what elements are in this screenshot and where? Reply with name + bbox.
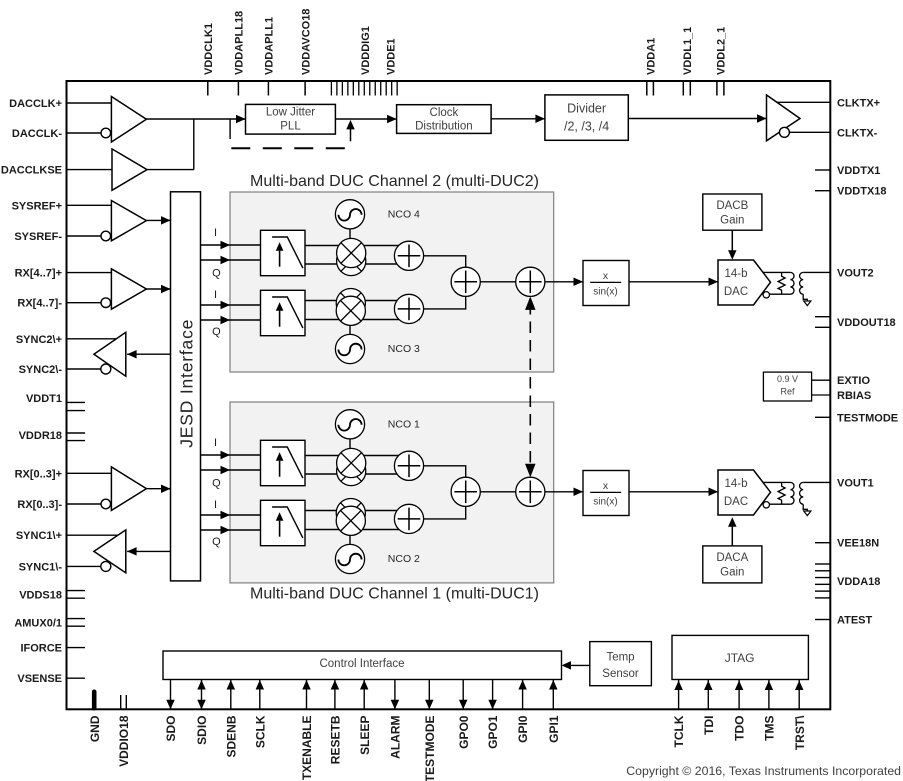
svg-text:Multi-band DUC Channel 1 (mult: Multi-band DUC Channel 1 (multi-DUC1) [250, 586, 539, 603]
svg-text:Copyright © 2016, Texas Instru: Copyright © 2016, Texas Instruments Inco… [626, 764, 901, 778]
svg-text:0.9 V: 0.9 V [777, 374, 798, 384]
svg-text:DACCLKSE: DACCLKSE [1, 165, 62, 177]
svg-text:VDDT1: VDDT1 [26, 393, 62, 405]
svg-text:SYNC2\+: SYNC2\+ [16, 334, 62, 346]
svg-text:TDI: TDI [702, 716, 716, 735]
svg-text:TCLK: TCLK [672, 715, 686, 747]
svg-text:GPO1: GPO1 [486, 715, 500, 749]
svg-text:VDDAPLL18: VDDAPLL18 [234, 11, 246, 75]
svg-text:PLL: PLL [280, 121, 301, 133]
svg-text:I: I [214, 289, 217, 301]
svg-text:TXENABLE: TXENABLE [300, 716, 314, 781]
svg-text:RESETB: RESETB [329, 715, 343, 764]
svg-text:Q: Q [212, 268, 221, 280]
svg-text:EXTIO: EXTIO [837, 375, 870, 387]
svg-text:GPI1: GPI1 [547, 715, 561, 743]
svg-text:SYSREF+: SYSREF+ [12, 200, 62, 212]
svg-text:VDDTX18: VDDTX18 [837, 186, 887, 198]
svg-text:Gain: Gain [720, 567, 744, 579]
svg-text:VDDCLK1: VDDCLK1 [203, 23, 215, 75]
svg-text:Distribution: Distribution [415, 120, 473, 132]
svg-text:RX[0..3]-: RX[0..3]- [17, 499, 62, 511]
svg-text:TRST\: TRST\ [793, 715, 807, 750]
svg-text:VDDS18: VDDS18 [19, 589, 62, 601]
svg-text:JESD Interface: JESD Interface [177, 319, 197, 448]
svg-text:TMS: TMS [763, 716, 777, 741]
svg-text:14-b: 14-b [724, 268, 747, 280]
svg-text:VDDA18: VDDA18 [837, 576, 880, 588]
svg-text:14-b: 14-b [724, 478, 747, 490]
svg-text:IFORCE: IFORCE [20, 643, 62, 655]
svg-text:VDDA1: VDDA1 [645, 38, 657, 75]
svg-text:sin(x): sin(x) [593, 497, 617, 508]
svg-text:SDO: SDO [164, 716, 178, 742]
svg-text:VDDOUT18: VDDOUT18 [837, 317, 896, 329]
svg-text:I: I [214, 499, 217, 511]
svg-text:Q: Q [212, 326, 221, 338]
svg-text:VDDAVCO18: VDDAVCO18 [300, 9, 312, 75]
svg-text:VSENSE: VSENSE [17, 673, 62, 685]
svg-text:SLEEP: SLEEP [358, 716, 372, 755]
svg-text:VDDR18: VDDR18 [19, 430, 62, 442]
svg-text:sin(x): sin(x) [593, 287, 617, 298]
svg-text:Temp: Temp [606, 652, 634, 664]
svg-text:x: x [603, 270, 609, 282]
svg-text:SDENB: SDENB [224, 715, 238, 757]
svg-text:TDO: TDO [733, 716, 747, 741]
svg-text:TESTMODE: TESTMODE [837, 412, 898, 424]
svg-text:GPI0: GPI0 [516, 715, 530, 743]
svg-text:Divider: Divider [567, 102, 606, 116]
svg-text:RX[4..7]+: RX[4..7]+ [15, 268, 62, 280]
svg-text:RX[4..7]-: RX[4..7]- [17, 298, 62, 310]
svg-text:Gain: Gain [720, 215, 744, 227]
svg-text:JTAG: JTAG [725, 651, 755, 665]
svg-text:I: I [214, 227, 217, 239]
svg-text:GPO0: GPO0 [457, 715, 471, 749]
svg-text:Clock: Clock [430, 107, 459, 119]
svg-text:RX[0..3]+: RX[0..3]+ [15, 468, 62, 480]
svg-text:Sensor: Sensor [602, 668, 639, 680]
svg-text:VEE18N: VEE18N [837, 538, 879, 550]
svg-text:VDDE1: VDDE1 [385, 38, 397, 75]
svg-text:CLKTX+: CLKTX+ [837, 97, 880, 109]
svg-text:Multi-band DUC Channel 2 (mult: Multi-band DUC Channel 2 (multi-DUC2) [250, 173, 539, 190]
svg-text:ATEST: ATEST [837, 615, 873, 627]
svg-text:Q: Q [212, 478, 221, 490]
svg-text:SCLK: SCLK [253, 715, 267, 748]
svg-text:DAC: DAC [724, 496, 748, 508]
svg-text:VDDL1_1: VDDL1_1 [682, 27, 694, 75]
svg-text:NCO 2: NCO 2 [388, 553, 420, 565]
svg-text:DACB: DACB [716, 200, 748, 212]
svg-text:VOUT2: VOUT2 [837, 267, 874, 279]
svg-text:NCO 3: NCO 3 [388, 343, 420, 355]
svg-text:ALARM: ALARM [389, 716, 403, 759]
svg-text:Ref: Ref [780, 387, 795, 397]
svg-text:VDDL2_1: VDDL2_1 [716, 27, 728, 75]
svg-text:SDIO: SDIO [195, 716, 209, 745]
svg-text:NCO 4: NCO 4 [388, 209, 420, 221]
svg-text:/2, /3, /4: /2, /3, /4 [564, 120, 609, 134]
svg-text:VDDDIG1: VDDDIG1 [360, 26, 372, 75]
svg-text:x: x [603, 480, 609, 492]
svg-text:SYNC2\-: SYNC2\- [19, 364, 63, 376]
svg-text:Low Jitter: Low Jitter [266, 107, 315, 119]
svg-text:SYNC1\+: SYNC1\+ [16, 530, 62, 542]
svg-text:I: I [214, 437, 217, 449]
svg-text:RBIAS: RBIAS [837, 390, 871, 402]
svg-text:VOUT1: VOUT1 [837, 477, 874, 489]
svg-text:VDDIO18: VDDIO18 [117, 715, 131, 767]
svg-text:DAC: DAC [724, 286, 748, 298]
svg-text:DACCLK+: DACCLK+ [9, 98, 62, 110]
svg-text:DACA: DACA [716, 552, 748, 564]
svg-text:SYNC1\-: SYNC1\- [19, 561, 63, 573]
svg-text:DACCLK-: DACCLK- [12, 128, 62, 140]
svg-text:GND: GND [88, 715, 102, 742]
svg-text:Control Interface: Control Interface [319, 658, 404, 670]
svg-text:VDDTX1: VDDTX1 [837, 165, 880, 177]
svg-text:NCO 1: NCO 1 [388, 419, 420, 431]
svg-text:AMUX0/1: AMUX0/1 [14, 617, 62, 629]
svg-text:TESTMODE: TESTMODE [423, 716, 437, 781]
svg-text:VDDAPLL1: VDDAPLL1 [264, 17, 276, 75]
svg-text:CLKTX-: CLKTX- [837, 127, 878, 139]
svg-text:SYSREF-: SYSREF- [14, 231, 62, 243]
svg-text:Q: Q [212, 536, 221, 548]
